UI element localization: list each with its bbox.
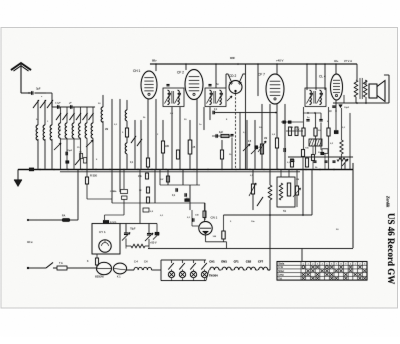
svg-text:T A: T A	[59, 262, 63, 265]
svg-text:CN 1: CN 1	[211, 216, 218, 220]
svg-text:TA: TA	[283, 210, 286, 213]
svg-text:Φ550/W: Φ550/W	[95, 276, 105, 279]
svg-text:Mittel: Mittel	[278, 270, 284, 273]
svg-text:CH 1: CH 1	[133, 69, 140, 73]
svg-text:40 w: 40 w	[27, 240, 33, 244]
svg-text:CF 2: CF 2	[177, 71, 184, 75]
svg-text:1M: 1M	[290, 127, 293, 129]
svg-text:CH: CH	[144, 261, 148, 264]
svg-text:K-W: K-W	[278, 266, 283, 269]
svg-text:70μF: 70μF	[130, 228, 136, 231]
svg-text:2M: 2M	[296, 179, 299, 181]
svg-text:88v: 88v	[152, 59, 157, 63]
svg-text:3μF: 3μF	[36, 87, 41, 91]
svg-text:0,1μF: 0,1μF	[55, 103, 61, 105]
svg-text:1M: 1M	[264, 138, 267, 140]
svg-text:+40 V: +40 V	[276, 59, 284, 63]
svg-text:40+: 40+	[334, 59, 339, 63]
svg-text:CD 2: CD 2	[229, 74, 236, 78]
svg-text:180: 180	[165, 145, 170, 148]
svg-text:CF 7: CF 7	[258, 73, 265, 77]
svg-text:US 46 Record GW: US 46 Record GW	[386, 213, 396, 284]
svg-text:4μF: 4μF	[219, 132, 224, 134]
svg-text:Lang: Lang	[278, 274, 284, 277]
svg-text:FA: FA	[62, 214, 65, 218]
svg-text:Skala: Skala	[278, 262, 285, 265]
svg-text:EM1: EM1	[221, 260, 227, 264]
svg-text:2M: 2M	[105, 129, 108, 131]
svg-text:+50 V: +50 V	[150, 242, 157, 245]
svg-text:37 V·A: 37 V·A	[344, 59, 352, 63]
svg-text:10μF: 10μF	[344, 107, 350, 109]
svg-text:M8F: M8F	[230, 57, 235, 60]
svg-text:CB2: CB2	[246, 260, 252, 264]
svg-text:Zerdik: Zerdik	[386, 195, 391, 208]
svg-text:C-4: C-4	[134, 261, 139, 264]
svg-text:2MΩ: 2MΩ	[110, 191, 115, 193]
svg-text:CH1: CH1	[209, 260, 215, 264]
svg-text:CF1: CF1	[234, 260, 240, 264]
svg-text:TN 504: TN 504	[209, 274, 218, 278]
svg-text:CF7: CF7	[258, 260, 264, 264]
svg-text:CL 4: CL 4	[319, 75, 326, 79]
svg-text:T-A: T-A	[278, 277, 282, 280]
svg-text:R 500: R 500	[90, 174, 97, 178]
svg-text:25μF: 25μF	[67, 150, 73, 152]
svg-text:B 500: B 500	[110, 222, 117, 225]
svg-text:CY 1: CY 1	[99, 230, 106, 234]
